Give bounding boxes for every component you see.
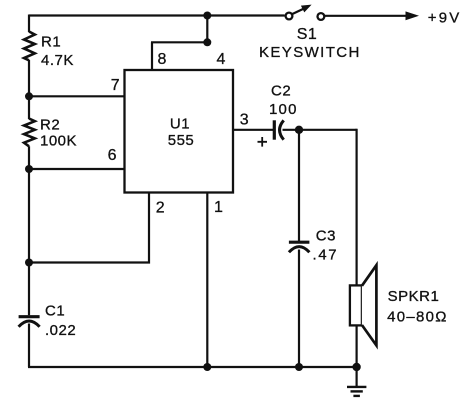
- wire pin 1: [206, 193, 208, 368]
- wire C3 branch upper: [298, 130, 300, 241]
- wire left rail C1 to bottom: [28, 324, 30, 368]
- wire pin 2 loop: [28, 193, 149, 263]
- capacitor C2: [274, 120, 283, 139]
- junction dot top rail / pin4: [203, 12, 211, 20]
- capacitor C1: [19, 317, 40, 327]
- resistor R1: [24, 32, 35, 61]
- svg-text:KEYSWITCH: KEYSWITCH: [259, 44, 361, 61]
- svg-text:+9V: +9V: [428, 10, 462, 27]
- junction dot left rail / pin 6: [25, 165, 33, 173]
- svg-text:S1: S1: [297, 26, 318, 43]
- svg-text:40–80Ω: 40–80Ω: [387, 308, 448, 325]
- svg-text:R1: R1: [41, 34, 61, 51]
- svg-text:1: 1: [214, 199, 223, 216]
- resistor R2: [24, 119, 35, 147]
- svg-text:100: 100: [269, 101, 298, 118]
- plus sign of C2: [258, 137, 268, 147]
- svg-text:100K: 100K: [40, 132, 77, 149]
- wire pin 3: [233, 129, 273, 131]
- junction dot left rail / pin 7: [25, 92, 33, 100]
- svg-text:.022: .022: [45, 322, 76, 339]
- switch S1: [286, 5, 325, 20]
- svg-text:2: 2: [156, 199, 165, 216]
- wire pin8-pin4 loop: [151, 41, 207, 43]
- op-amp/timer U1 555 box: [125, 70, 234, 193]
- wire pin 4: [206, 16, 208, 44]
- wire speaker branch down: [356, 129, 358, 286]
- svg-text:8: 8: [157, 51, 166, 68]
- wire left rail R1 to pin7 node: [28, 60, 30, 119]
- +9V supply arrow: [324, 11, 419, 20]
- junction dot speaker / ground: [352, 363, 360, 371]
- junction dot pin4 / pin8 loop: [203, 38, 211, 46]
- svg-text:4.7K: 4.7K: [41, 52, 74, 69]
- junction dot pin 1 / bottom rail: [203, 363, 211, 371]
- wire left rail R2 to C1: [28, 146, 30, 315]
- svg-text:7: 7: [111, 77, 120, 94]
- wire pin 7: [29, 95, 125, 97]
- wire left rail top segment: [28, 15, 30, 33]
- svg-text:C1: C1: [45, 303, 65, 320]
- capacitor C3: [289, 242, 310, 252]
- svg-text:6: 6: [108, 147, 117, 164]
- svg-text:U1: U1: [170, 115, 190, 132]
- junction dot left rail / pin 2 loop: [25, 259, 33, 267]
- wire C3 branch lower: [298, 250, 300, 368]
- svg-text:.47: .47: [313, 247, 339, 264]
- svg-text:3: 3: [240, 111, 249, 128]
- svg-text:R2: R2: [40, 117, 60, 134]
- svg-text:SPKR1: SPKR1: [388, 288, 440, 305]
- wire C2 to speaker branch: [283, 129, 357, 131]
- svg-text:C2: C2: [271, 83, 291, 100]
- svg-text:4: 4: [216, 51, 225, 68]
- wire bottom rail: [28, 366, 357, 368]
- wire pin 6: [29, 168, 125, 170]
- junction dot C2 output node: [295, 126, 303, 134]
- wire speaker to bottom rail: [356, 325, 358, 367]
- ground: [347, 367, 366, 396]
- wire top rail: [29, 14, 285, 16]
- junction dot C3 / bottom rail: [295, 363, 303, 371]
- wire pin 8: [151, 42, 153, 70]
- svg-text:C3: C3: [316, 227, 336, 244]
- svg-text:555: 555: [168, 132, 195, 149]
- speaker SPKR1 symbol: [350, 265, 377, 345]
